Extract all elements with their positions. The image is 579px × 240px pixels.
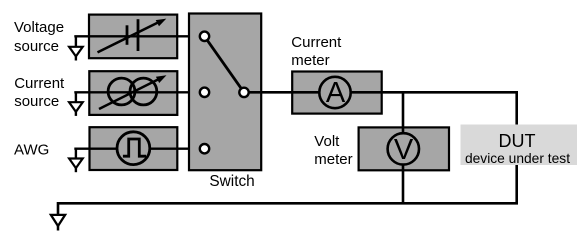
voltmeter symbol V <box>388 133 419 166</box>
current source box I1 <box>89 71 177 115</box>
label: Current meter <box>291 34 342 69</box>
switch arm <box>205 36 245 92</box>
svg-text:meter: meter <box>314 151 352 168</box>
current source symbol (two circles + arrow) <box>99 75 167 109</box>
voltage source symbol (variable battery) <box>98 19 167 53</box>
svg-text:AWG: AWG <box>14 142 49 159</box>
ammeter symbol A <box>319 77 350 109</box>
A meter box <box>292 72 382 114</box>
switch box S1 <box>189 14 261 171</box>
ground: main (bottom left) <box>51 215 65 231</box>
label: Current source <box>14 75 65 110</box>
label: Volt meter <box>314 133 352 168</box>
switch node: input 1 <box>200 32 209 41</box>
AWG symbol (pulse generator circle) <box>117 132 150 165</box>
svg-text:source: source <box>14 93 59 110</box>
wire: volt meter branch (vertical) <box>402 92 405 203</box>
svg-text:Current: Current <box>14 75 65 92</box>
ground: voltage source <box>69 36 83 60</box>
ground: current source <box>69 92 83 116</box>
wire: current source row <box>74 91 200 93</box>
svg-text:Switch: Switch <box>209 173 254 190</box>
svg-text:A: A <box>326 77 346 109</box>
V meter box <box>359 127 449 170</box>
switch node: input 3 <box>200 144 209 153</box>
svg-text:Voltage: Voltage <box>14 19 64 36</box>
voltage source box V1 <box>89 15 177 59</box>
ground: AWG <box>69 149 83 173</box>
wire: voltage source row <box>74 35 200 37</box>
svg-text:meter: meter <box>291 52 329 69</box>
wire: AWG row <box>74 147 200 149</box>
AWG box <box>90 127 178 170</box>
svg-text:DUT: DUT <box>499 131 536 151</box>
label: Voltage source <box>14 19 64 55</box>
svg-text:Current: Current <box>291 34 342 51</box>
DUT box <box>461 125 578 166</box>
switch node: output <box>239 88 248 97</box>
svg-text:Volt: Volt <box>314 133 340 150</box>
svg-text:V: V <box>394 134 414 166</box>
svg-text:device under test: device under test <box>465 151 570 166</box>
wire: switch output to current meter, to DUT, down and bottom return <box>58 92 517 215</box>
label: AWG <box>14 142 49 159</box>
switch node: input 2 <box>200 88 209 97</box>
svg-text:source: source <box>14 38 59 55</box>
